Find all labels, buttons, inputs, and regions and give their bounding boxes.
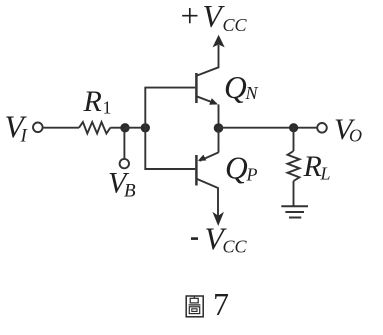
svg-text:N: N [245,83,259,103]
node C (output junction dot at emitters) [214,123,224,133]
wire output node to Q_P emitter [218,128,220,153]
svg-text:R: R [303,150,322,183]
node D (junction dot at R_L tap) [289,123,298,132]
wire V_I terminal to R1 [43,127,79,129]
svg-text:P: P [246,165,258,185]
label V_O [334,113,362,146]
label -V_CC [191,222,248,257]
resistor R1 [79,122,110,134]
caption glyph 圖 (drawn) [186,296,203,317]
svg-text:O: O [349,126,362,146]
transistor Q_N (NPN) [196,45,218,105]
terminal V_B [120,159,129,168]
node A (junction dot at R1 output) [120,123,129,132]
wire node A to node B [125,127,145,129]
node B (junction dot at base bus) [141,123,150,132]
power arrow +V_CC [213,35,225,48]
wire node B to Q_P base [144,168,195,170]
label R1 [83,85,112,118]
svg-text:CC: CC [223,237,248,257]
terminal V_I input [33,123,43,133]
wire node A down to V_B terminal [123,128,125,159]
svg-text:R: R [83,85,102,118]
label R_L [303,150,331,184]
terminal V_O [317,123,327,133]
resistor R_L [288,151,300,181]
svg-text:B: B [124,181,136,202]
transistor Q_P (PNP) [196,152,218,216]
label +V_CC [181,0,248,35]
svg-text:I: I [20,126,29,147]
wire node B to Q_N base [144,87,195,89]
label V_I [5,110,29,147]
ground [281,206,308,217]
svg-text:Q: Q [225,151,248,186]
svg-text:7: 7 [213,286,229,322]
wire output node to V_O terminal [219,127,318,129]
wire R_L to ground [293,181,295,206]
wire node D down to R_L [293,128,295,151]
label Q_P [225,151,258,186]
svg-text:Q: Q [224,70,247,105]
label V_B [108,167,136,202]
svg-text:1: 1 [103,98,112,118]
power arrow -V_CC [212,212,224,226]
svg-text:+: + [181,0,200,35]
svg-text:CC: CC [223,15,248,35]
wire Q_N emitter down to output node [218,104,220,127]
wire R1 to node A [110,127,125,129]
label Q_N [224,70,259,105]
svg-text:L: L [320,164,331,184]
wire base bus vertical (node B up to Q_N base, down to Q_P base) [144,88,146,169]
